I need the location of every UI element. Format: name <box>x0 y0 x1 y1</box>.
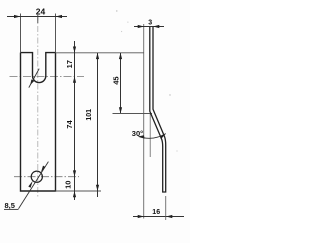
part outline main view <box>21 53 56 191</box>
dim line 17/74/10 vertical <box>74 41 76 200</box>
angle 30 deg arc <box>139 134 166 139</box>
svg-text:16: 16 <box>152 209 160 216</box>
dim 3 top <box>134 26 164 28</box>
svg-text:3: 3 <box>148 19 152 26</box>
dim 101 vertical <box>97 53 99 197</box>
centerline slot arc horizontal <box>10 75 85 77</box>
arrow below bottom edge pointing up <box>73 191 76 197</box>
top edge extension line to right <box>56 52 145 54</box>
arrow above top edge pointing down <box>73 47 76 53</box>
dim 16 bottom <box>133 216 184 218</box>
bend vertical extension for angle <box>149 113 151 157</box>
side view reference thin line <box>143 24 145 219</box>
side view sheet <box>150 26 166 192</box>
svg-text:74: 74 <box>65 120 74 129</box>
slot slash leader <box>29 69 39 88</box>
dim 45 vertical <box>120 53 122 114</box>
ext line 45 bottom <box>113 113 153 115</box>
svg-text:10: 10 <box>64 181 73 189</box>
svg-text:45: 45 <box>111 76 120 84</box>
svg-text:24: 24 <box>36 7 46 17</box>
svg-text:17: 17 <box>65 60 74 68</box>
faint specks <box>116 10 117 11</box>
arrow below slot line pointing up <box>73 76 76 82</box>
dim 24 line <box>7 16 67 18</box>
dim 24 extension lines <box>20 14 22 53</box>
bottom edge extension line to right <box>56 190 102 192</box>
svg-text:30°: 30° <box>132 129 143 138</box>
centerline vertical main view <box>37 15 39 198</box>
centerline hole horizontal <box>14 176 79 178</box>
hole leader 8,5 <box>19 162 49 209</box>
svg-text:8,5: 8,5 <box>5 201 15 210</box>
arrow above hole centerline pointing down <box>73 170 76 176</box>
svg-text:101: 101 <box>86 109 93 121</box>
hole <box>31 171 42 182</box>
